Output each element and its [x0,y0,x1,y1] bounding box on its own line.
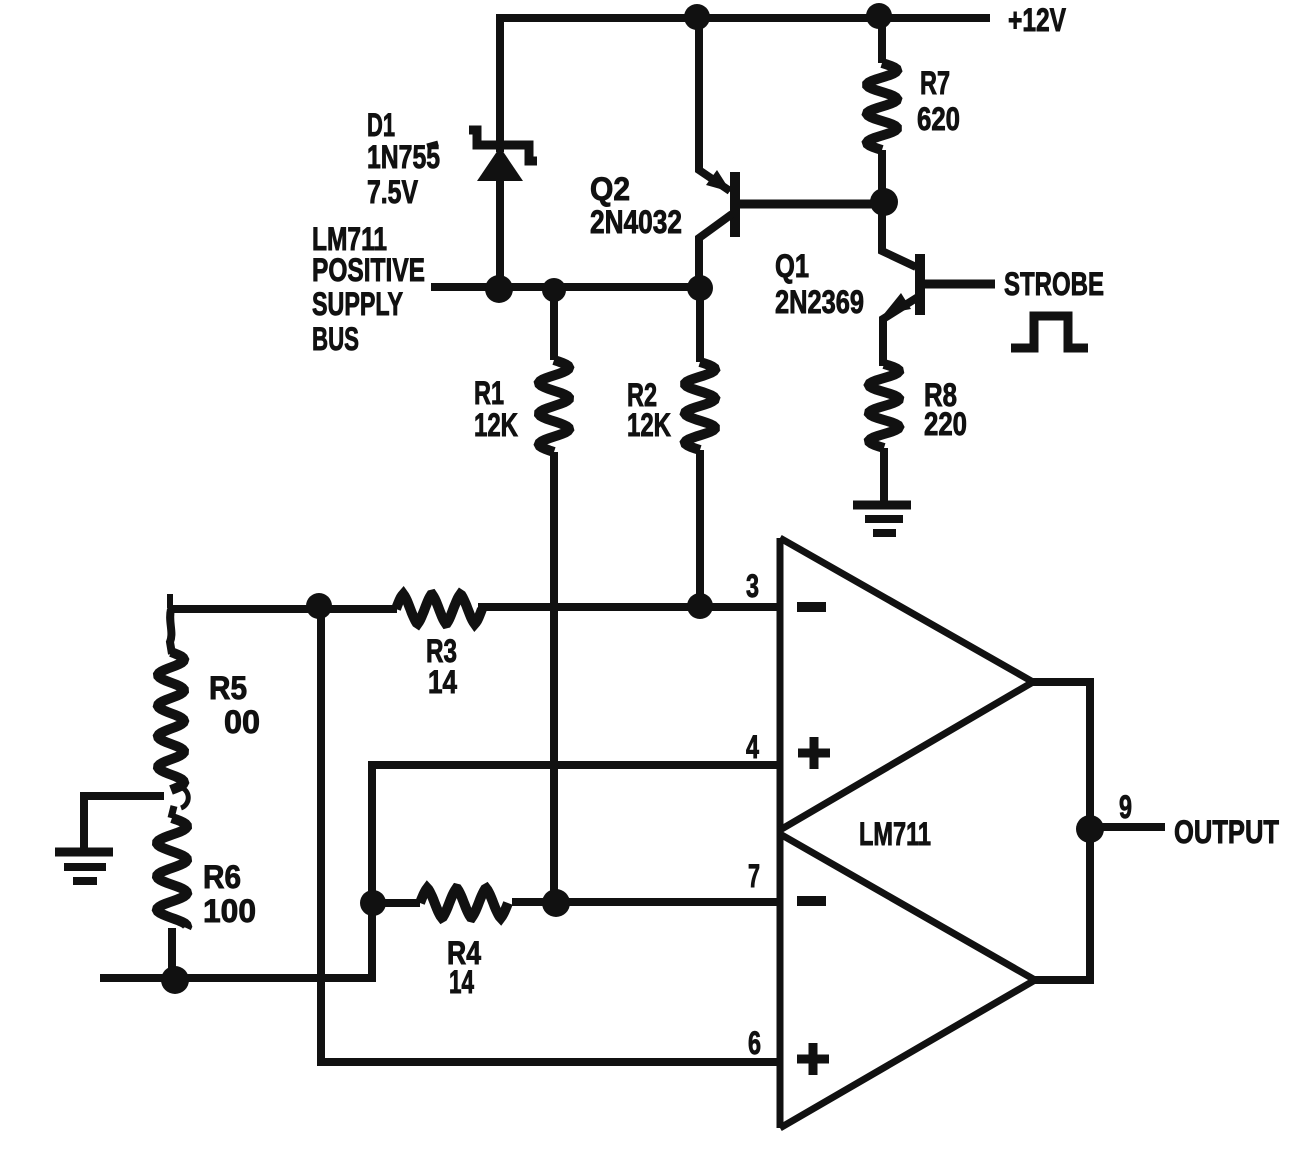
node junction top rail / R7 [866,3,892,29]
transistor Q1 collector wire [882,202,916,267]
ground left [55,848,113,857]
svg-text:+12V: +12V [1008,2,1067,38]
wire output [1090,823,1165,831]
resistor R8 [869,364,899,448]
wire D1 anode to supply bus [496,178,504,290]
op-amp lower triangle [780,834,1035,1128]
plus sign pin 4 [798,737,830,769]
node R4 right / R1 / pin7 [542,889,570,917]
R5 break artifact arc [180,787,188,808]
svg-text:220: 220 [924,406,967,442]
op-amp U1 LM711 left edge [777,538,784,1128]
node R7 / Q2 base / Q1 collector [870,188,898,216]
svg-text:14: 14 [428,664,457,700]
svg-text:7: 7 [748,858,760,894]
wire output join [1033,682,1090,980]
diode D1 zener cathode bar [469,130,537,161]
wire +12V top rail [496,14,990,22]
node R6 bottom [161,966,189,994]
ground below R8 [853,501,911,510]
svg-text:R1: R1 [474,375,504,411]
svg-text:100: 100 [203,893,256,929]
svg-text:Q1: Q1 [775,248,809,284]
resistor R4 [374,899,420,907]
transistor Q2 emitter wire with arrow [699,16,730,191]
wire left rail drop to D1 [496,14,504,152]
svg-text:4: 4 [746,729,759,765]
transistor Q1 base bar [915,254,925,315]
node junction top rail / Q2 emitter [684,4,710,30]
resistor R2 [696,288,704,362]
svg-text:R7: R7 [920,65,950,101]
resistor R1 [550,290,558,360]
resistor R3 [396,594,482,624]
node pin3 / R2 [687,593,713,619]
node R4 left [360,890,386,916]
wire bottom: pin4 loop [100,765,780,978]
svg-text:6: 6 [748,1025,761,1061]
resistor R5 [170,609,172,654]
svg-text:1N755: 1N755 [367,139,440,175]
R5 lower artifact [171,806,174,818]
plus sign pin 6 [797,1043,829,1075]
svg-text:12K: 12K [627,407,671,443]
svg-text:14: 14 [449,964,474,1000]
svg-text:STROBE: STROBE [1004,266,1104,302]
resistor R7 [878,16,886,63]
svg-text:620: 620 [917,101,960,137]
svg-text:R5: R5 [209,670,247,706]
svg-text:LM711: LM711 [859,816,931,852]
wire input down to pin 6 [321,606,780,1062]
svg-text:BUS: BUS [312,321,359,357]
svg-text:Q2: Q2 [590,171,630,207]
minus sign pin 7 [797,896,826,906]
svg-text:9: 9 [1119,789,1132,825]
svg-text:OUTPUT: OUTPUT [1174,814,1279,850]
svg-text:3: 3 [746,568,759,604]
diode D1 anode triangle [477,147,523,181]
transistor Q2 collector wire [699,214,732,290]
svg-text:2N4032: 2N4032 [590,204,682,240]
transistor Q2 base bar [730,172,740,237]
wire R3 to pin 3 [478,603,780,611]
svg-text:D1: D1 [367,107,395,143]
op-amp upper triangle [780,538,1033,830]
svg-text:12K: 12K [474,407,518,443]
svg-text:R6: R6 [203,859,241,895]
wire Q1 base to STROBE [922,280,995,289]
svg-text:POSITIVE: POSITIVE [312,252,425,288]
wire LM711 positive supply bus [431,283,701,291]
node input / vertical to pin6 [306,593,332,619]
wire input node to R3 [168,605,397,613]
svg-text:00: 00 [224,704,260,740]
svg-text:SUPPLY: SUPPLY [312,286,403,322]
node bus / Q2 collector / R2 [687,275,713,301]
strobe pulse symbol [1011,316,1088,348]
resistor R6 [157,818,187,928]
R5 top artifact tick [167,594,173,608]
minus sign pin 3 [797,602,826,612]
artifact above 1N755 last digit [427,143,438,146]
wire Q2 base to node [737,200,884,209]
node bus / D1 [485,275,513,303]
wire R4 to pin 7 [512,898,780,906]
node bus / R1 [542,278,566,302]
svg-text:2N2369: 2N2369 [775,284,864,320]
transistor Q1 emitter wire with arrow [883,297,918,366]
svg-text:7.5V: 7.5V [367,174,419,210]
node output pin 9 [1076,815,1104,843]
wire ground stub left [84,796,164,849]
